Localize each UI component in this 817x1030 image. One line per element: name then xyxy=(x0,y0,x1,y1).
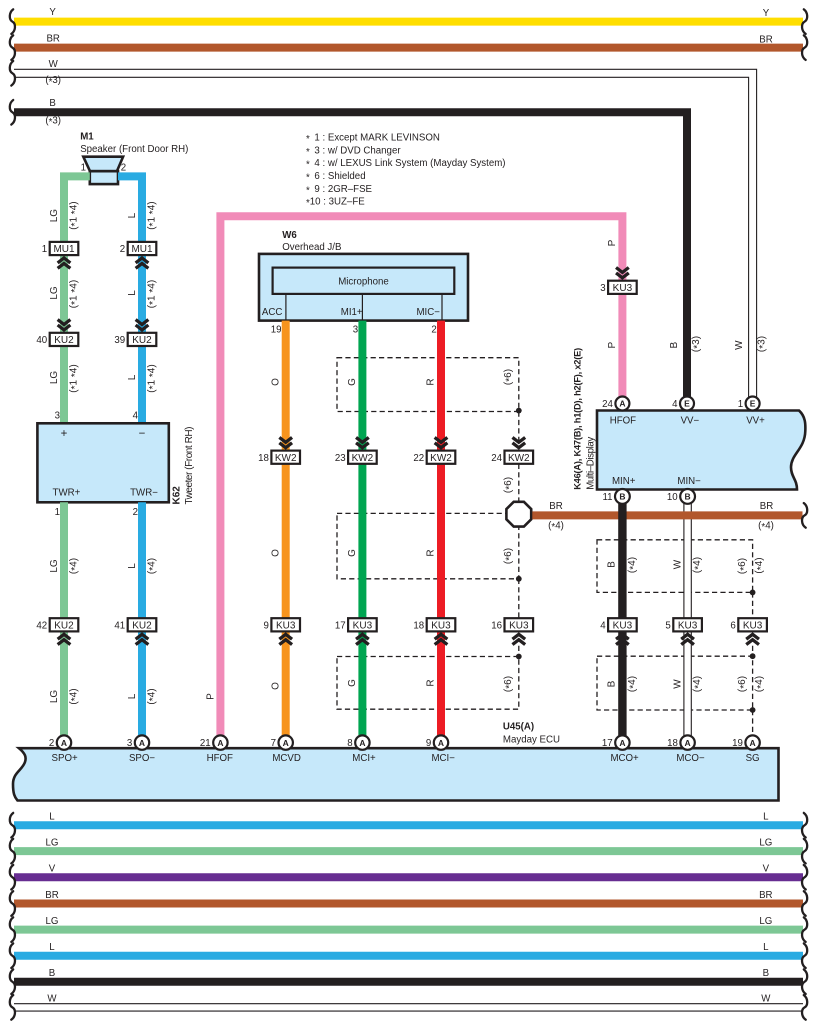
svg-text:BR: BR xyxy=(759,890,772,901)
connector KW2 pin 18 xyxy=(258,437,300,463)
svg-text:Tweeter (Front RH): Tweeter (Front RH) xyxy=(184,427,195,505)
svg-text:2: 2 xyxy=(49,738,54,749)
pin 8 (A) Mayday ECU MCI+ xyxy=(347,735,376,763)
connector KU2 pin 40 xyxy=(36,320,78,346)
svg-text:*​ 4 : w/ LEXUS Link System (: *​ 4 : w/ LEXUS Link System (Mayday Syst… xyxy=(306,158,506,171)
wire G W6 MI1+ to Mayday ECU MCI+ xyxy=(347,321,362,741)
svg-text:KW2: KW2 xyxy=(508,453,530,464)
svg-text:39: 39 xyxy=(114,335,125,346)
pin 2 (A) Mayday ECU SPO+ xyxy=(49,735,78,763)
svg-text:(*​1 *​4): (*​1 *​4) xyxy=(147,201,160,229)
svg-text:Y: Y xyxy=(763,8,770,19)
svg-text:22: 22 xyxy=(413,453,424,464)
svg-text:L: L xyxy=(49,812,55,823)
wire B (top, black, *3) to Multi-Display VV- xyxy=(10,98,704,397)
svg-text:24: 24 xyxy=(491,453,502,464)
svg-text:KU2: KU2 xyxy=(132,335,152,346)
svg-text:KU3: KU3 xyxy=(613,620,633,631)
svg-text:KU2: KU2 xyxy=(54,335,74,346)
svg-text:*​10 : 3UZ–FE: *​10 : 3UZ–FE xyxy=(306,197,365,210)
svg-text:B: B xyxy=(685,492,691,502)
svg-text:A: A xyxy=(139,738,145,748)
svg-text:MCI+: MCI+ xyxy=(352,753,376,764)
wire BR (bottom bus) xyxy=(10,890,807,916)
svg-text:V: V xyxy=(49,864,56,875)
svg-text:TWR−: TWR− xyxy=(130,487,158,498)
Mayday ECU U45(A) box xyxy=(13,722,779,801)
svg-text:ACC: ACC xyxy=(262,307,282,318)
svg-text:3: 3 xyxy=(55,411,60,422)
svg-text:M1: M1 xyxy=(80,131,94,142)
wire LG tweeter TWR+ to Mayday ECU SPO+ xyxy=(49,502,81,741)
svg-text:(*​3): (*​3) xyxy=(691,336,704,352)
svg-text:U45(A): U45(A) xyxy=(503,722,534,733)
svg-text:KU3: KU3 xyxy=(431,620,451,631)
svg-text:G: G xyxy=(347,679,358,687)
svg-text:(*​4): (*​4) xyxy=(692,676,705,692)
svg-text:(*​4): (*​4) xyxy=(754,676,767,692)
pin 21 (A) Mayday ECU HFOF xyxy=(200,735,233,763)
svg-text:G: G xyxy=(347,378,358,386)
shield dashed box R2 (around B,W wires) xyxy=(597,656,767,710)
svg-text:SPO+: SPO+ xyxy=(52,753,78,764)
svg-text:MCI−: MCI− xyxy=(431,753,455,764)
shield dashed box 3 (around G,R wires) xyxy=(337,657,519,710)
svg-text:(*​6): (*​6) xyxy=(503,548,516,564)
svg-text:(*​1 *​4): (*​1 *​4) xyxy=(69,280,82,308)
connector KU3 pin 6 xyxy=(730,618,766,644)
svg-text:10: 10 xyxy=(667,492,678,503)
svg-text:P: P xyxy=(607,342,618,349)
svg-text:KU3: KU3 xyxy=(743,620,763,631)
svg-text:42: 42 xyxy=(36,620,47,631)
connector KU2 pin 42 xyxy=(36,618,78,644)
svg-text:*​ 9 : 2GR–FSE: *​ 9 : 2GR–FSE xyxy=(306,184,373,197)
wire B Multi-Display MIN+ to Mayday ECU MCO+ (black) xyxy=(606,503,639,735)
svg-text:1: 1 xyxy=(55,507,60,518)
svg-text:E: E xyxy=(750,399,756,409)
svg-text:MCO−: MCO− xyxy=(676,753,705,764)
svg-text:9: 9 xyxy=(426,738,431,749)
svg-text:W: W xyxy=(49,59,59,70)
svg-text:(*​6): (*​6) xyxy=(503,369,516,385)
svg-text:Overhead J/B: Overhead J/B xyxy=(282,242,341,253)
svg-text:2: 2 xyxy=(121,162,126,173)
svg-text:KW2: KW2 xyxy=(275,453,297,464)
svg-text:3: 3 xyxy=(127,738,132,749)
svg-text:40: 40 xyxy=(36,335,47,346)
connector KU3 pin 5 xyxy=(665,618,701,644)
svg-text:A: A xyxy=(750,738,756,748)
svg-text:LG: LG xyxy=(49,286,60,300)
svg-text:3: 3 xyxy=(353,325,358,336)
svg-text:1: 1 xyxy=(42,244,47,255)
tweeter K62 (Front RH) box xyxy=(37,411,194,518)
svg-text:L: L xyxy=(127,290,138,296)
wire L speaker pin2 to tweeter (segments with labels) xyxy=(118,176,159,423)
svg-text:2: 2 xyxy=(133,507,138,518)
svg-text:(*​6): (*​6) xyxy=(737,676,750,692)
svg-text:KU2: KU2 xyxy=(54,620,74,631)
svg-text:Multi–Display: Multi–Display xyxy=(585,437,596,490)
svg-text:L: L xyxy=(763,812,769,823)
wire W (top, white, *3) to Multi-Display VV+ xyxy=(10,59,769,397)
svg-text:8: 8 xyxy=(347,738,352,749)
pin 1 (E) Multi-Display VV+ xyxy=(738,397,760,411)
svg-text:MU1: MU1 xyxy=(53,244,75,255)
pin 19 (A) Mayday ECU SG xyxy=(732,735,760,763)
shield dashed box R1 (around B,W wires) xyxy=(597,540,767,593)
svg-text:(*​1 *​4): (*​1 *​4) xyxy=(147,364,160,392)
connector KW2 pin 22 xyxy=(413,437,455,463)
svg-text:B: B xyxy=(669,342,680,349)
svg-text:SPO−: SPO− xyxy=(129,753,155,764)
wire L (bottom bus) xyxy=(10,942,807,968)
svg-text:MCVD: MCVD xyxy=(272,753,301,764)
svg-text:9: 9 xyxy=(264,620,269,631)
svg-text:19: 19 xyxy=(271,325,282,336)
svg-text:41: 41 xyxy=(114,620,125,631)
svg-text:W: W xyxy=(47,994,57,1005)
svg-text:(*​4): (*​4) xyxy=(758,520,774,533)
pin 9 (A) Mayday ECU MCI- xyxy=(426,735,455,763)
svg-text:(*​4): (*​4) xyxy=(69,688,82,704)
wire Y (top, yellow) xyxy=(10,7,807,34)
shield dashed box 2 (around G,R wires, to ground) xyxy=(337,513,519,578)
svg-text:LG: LG xyxy=(759,916,772,927)
svg-text:6: 6 xyxy=(730,620,735,631)
svg-text:2: 2 xyxy=(120,244,125,255)
svg-text:(*​4): (*​4) xyxy=(754,557,767,573)
svg-text:W: W xyxy=(734,340,745,350)
svg-text:18: 18 xyxy=(258,453,269,464)
svg-text:MU1: MU1 xyxy=(131,244,153,255)
svg-text:B: B xyxy=(49,968,55,979)
pin 18 (A) Mayday ECU MCO- xyxy=(667,735,705,763)
svg-text:(*​4): (*​4) xyxy=(627,676,640,692)
svg-text:17: 17 xyxy=(602,738,613,749)
svg-text:MCO+: MCO+ xyxy=(610,753,639,764)
svg-text:19: 19 xyxy=(732,738,743,749)
svg-text:A: A xyxy=(359,738,365,748)
svg-text:KW2: KW2 xyxy=(352,453,374,464)
svg-text:KU2: KU2 xyxy=(132,620,152,631)
svg-text:(*​3): (*​3) xyxy=(45,75,61,88)
svg-text:LG: LG xyxy=(46,837,59,848)
svg-text:(*​3): (*​3) xyxy=(45,116,61,129)
connector KU3 pin 4 xyxy=(600,618,636,644)
svg-text:18: 18 xyxy=(667,738,678,749)
wire L tweeter TWR- to Mayday ECU SPO- xyxy=(127,502,159,741)
connector KU3 pin 17 xyxy=(335,618,377,644)
wire LG (bottom bus) xyxy=(10,916,807,942)
svg-text:R: R xyxy=(426,378,437,385)
svg-text:LG: LG xyxy=(49,559,60,573)
svg-text:L: L xyxy=(127,563,138,569)
pin 4 (E) Multi-Display VV- xyxy=(672,397,694,411)
svg-text:A: A xyxy=(619,738,625,748)
svg-text:HFOF: HFOF xyxy=(207,753,233,764)
svg-text:Speaker (Front Door RH): Speaker (Front Door RH) xyxy=(80,144,188,155)
svg-text:LG: LG xyxy=(49,371,60,385)
pin 11 (B) Multi-Display MIN+ xyxy=(602,489,629,504)
svg-text:A: A xyxy=(61,738,67,748)
svg-text:KW2: KW2 xyxy=(430,453,452,464)
svg-text:11: 11 xyxy=(602,492,612,503)
svg-text:24: 24 xyxy=(602,399,613,410)
svg-text:L: L xyxy=(127,693,138,699)
svg-text:W6: W6 xyxy=(282,230,297,241)
svg-text:(*​4): (*​4) xyxy=(147,688,160,704)
svg-text:18: 18 xyxy=(413,620,424,631)
svg-text:KU3: KU3 xyxy=(276,620,296,631)
svg-text:(*​4): (*​4) xyxy=(69,558,82,574)
shield drain wire (dashed) with junction dots, *6 xyxy=(503,408,522,660)
svg-text:L: L xyxy=(49,942,55,953)
svg-text:VV−: VV− xyxy=(681,415,700,426)
svg-text:(*​6): (*​6) xyxy=(737,558,750,574)
svg-text:(*​4): (*​4) xyxy=(548,520,564,533)
svg-text:O: O xyxy=(270,378,281,386)
svg-text:B: B xyxy=(619,492,625,502)
svg-text:R: R xyxy=(426,679,437,686)
wire W (bottom bus, white) xyxy=(10,994,807,1020)
connector KU2 pin 41 xyxy=(114,618,156,644)
svg-text:2: 2 xyxy=(431,325,436,336)
svg-text:B: B xyxy=(606,680,617,687)
svg-text:(*​6): (*​6) xyxy=(503,477,516,493)
svg-text:R: R xyxy=(426,549,437,556)
svg-text:Microphone: Microphone xyxy=(338,277,389,288)
svg-text:MIC−: MIC− xyxy=(416,307,440,318)
svg-text:P: P xyxy=(607,239,618,246)
svg-text:L: L xyxy=(127,374,138,380)
svg-text:(*​1 *​4): (*​1 *​4) xyxy=(69,364,82,392)
svg-text:P: P xyxy=(206,693,217,700)
connector KU2 pin 39 xyxy=(114,320,156,346)
svg-text:A: A xyxy=(619,399,625,409)
svg-text:5: 5 xyxy=(665,620,670,631)
SG drain wire (dashed) with junction dots xyxy=(750,590,756,736)
svg-text:Y: Y xyxy=(49,7,56,18)
svg-text:BR: BR xyxy=(759,34,772,45)
wire BR shield ground to right (*4) xyxy=(532,501,807,533)
pin 10 (B) Multi-Display MIN- xyxy=(667,489,695,504)
svg-text:HFOF: HFOF xyxy=(610,415,636,426)
svg-text:W: W xyxy=(673,679,684,689)
svg-text:BR: BR xyxy=(46,33,59,44)
svg-text:+: + xyxy=(61,428,68,440)
svg-text:1: 1 xyxy=(738,399,743,410)
svg-text:−: − xyxy=(139,428,146,440)
svg-text:TWR+: TWR+ xyxy=(53,487,81,498)
pin 17 (A) Mayday ECU MCO+ xyxy=(602,735,639,763)
svg-text:(*​4): (*​4) xyxy=(692,557,705,573)
svg-text:A: A xyxy=(685,738,691,748)
svg-text:BR: BR xyxy=(549,501,562,512)
svg-text:G: G xyxy=(347,549,358,557)
connector KU3 pin 16 xyxy=(491,618,533,644)
svg-text:A: A xyxy=(283,738,289,748)
wire LG speaker pin1 to tweeter (segments with labels) xyxy=(49,176,90,423)
svg-text:1: 1 xyxy=(81,162,86,173)
svg-text:*​ 3 : w/ DVD Changer: *​ 3 : w/ DVD Changer xyxy=(306,145,401,158)
svg-text:(*​4): (*​4) xyxy=(627,557,640,573)
svg-text:O: O xyxy=(270,682,281,690)
wire W Multi-Display MIN- to Mayday ECU MCO- (white) xyxy=(673,503,705,735)
svg-text:*​ 6 : Shielded: *​ 6 : Shielded xyxy=(306,171,366,184)
svg-text:L: L xyxy=(127,212,138,218)
svg-text:MIN−: MIN− xyxy=(677,476,701,487)
svg-text:KU3: KU3 xyxy=(509,620,529,631)
svg-text:A: A xyxy=(438,738,444,748)
connector KU3 pin 3 xyxy=(600,268,636,294)
svg-text:(*​3): (*​3) xyxy=(756,336,769,352)
svg-text:K62: K62 xyxy=(172,486,183,505)
pin 3 (A) Mayday ECU SPO- xyxy=(127,735,155,763)
speaker M1 (Front Door RH) xyxy=(80,131,188,184)
connector KU3 pin 9 xyxy=(264,618,300,644)
wire P Mayday ECU HFOF to Multi-Display HFOF xyxy=(206,216,623,741)
svg-text:4: 4 xyxy=(672,399,678,410)
wire BR (top, brown) xyxy=(10,33,807,60)
pin 24 (A) Multi-Display HFOF xyxy=(602,397,629,411)
svg-text:SG: SG xyxy=(746,753,760,764)
svg-text:A: A xyxy=(217,738,223,748)
svg-text:LG: LG xyxy=(46,916,59,927)
svg-text:21: 21 xyxy=(200,738,211,749)
svg-text:B: B xyxy=(49,98,55,109)
svg-text:B: B xyxy=(763,968,769,979)
svg-text:4: 4 xyxy=(600,620,606,631)
svg-text:*​ 1 : Except MARK LEVINSON: *​ 1 : Except MARK LEVINSON xyxy=(306,133,440,146)
wire L (bottom bus) xyxy=(10,812,807,838)
svg-text:(*​1 *​4): (*​1 *​4) xyxy=(69,201,82,229)
shield dashed box 1 (around G,R wires, *6) xyxy=(337,358,519,412)
svg-text:LG: LG xyxy=(49,690,60,704)
svg-text:(*​6): (*​6) xyxy=(503,676,516,692)
svg-text:23: 23 xyxy=(335,453,346,464)
connector MU1 pin 1 xyxy=(42,242,78,268)
connector MU1 pin 2 xyxy=(120,242,156,268)
svg-text:BR: BR xyxy=(45,890,58,901)
svg-text:V: V xyxy=(763,864,770,875)
svg-text:W: W xyxy=(673,559,684,569)
shield ground octagon xyxy=(506,502,531,527)
svg-text:O: O xyxy=(270,549,281,557)
wire R W6 MIC- to Mayday ECU MCI- xyxy=(426,321,441,741)
Multi-Display unit K46(A), K47(B), h1(D), h2(F), x2(E) xyxy=(573,348,806,490)
svg-text:BR: BR xyxy=(760,501,773,512)
connector KW2 pin 23 xyxy=(335,437,377,463)
wire LG (bottom bus) xyxy=(10,837,807,863)
svg-text:4: 4 xyxy=(133,411,139,422)
svg-text:3: 3 xyxy=(600,283,605,294)
svg-text:B: B xyxy=(606,561,617,568)
svg-text:L: L xyxy=(763,942,769,953)
svg-text:KU3: KU3 xyxy=(678,620,698,631)
wire V (bottom bus) xyxy=(10,864,807,890)
svg-text:VV+: VV+ xyxy=(746,415,765,426)
junction box W6 Overhead J/B with Microphone xyxy=(259,230,468,336)
svg-text:16: 16 xyxy=(491,620,502,631)
svg-text:E: E xyxy=(684,399,690,409)
connector KU3 pin 18 xyxy=(413,618,455,644)
svg-text:K46(A), K47(B), h1(D), h2(F),: K46(A), K47(B), h1(D), h2(F), x2(E) xyxy=(573,348,583,490)
wire O W6 ACC to Mayday ECU MCVD xyxy=(270,321,285,741)
wire B (bottom bus) xyxy=(10,968,807,994)
svg-text:MIN+: MIN+ xyxy=(612,476,636,487)
svg-text:MI1+: MI1+ xyxy=(341,307,363,318)
svg-text:LG: LG xyxy=(759,837,772,848)
svg-text:KU3: KU3 xyxy=(613,283,633,294)
svg-text:(*​4): (*​4) xyxy=(147,558,160,574)
svg-text:Mayday ECU: Mayday ECU xyxy=(503,735,560,746)
svg-text:LG: LG xyxy=(49,209,60,223)
connector KW2 pin 24 xyxy=(491,437,533,463)
pin 7 (A) Mayday ECU MCVD xyxy=(271,735,301,763)
notes legend xyxy=(306,133,506,210)
svg-text:W: W xyxy=(761,994,771,1005)
svg-text:KU3: KU3 xyxy=(353,620,373,631)
svg-text:(*​1 *​4): (*​1 *​4) xyxy=(147,280,160,308)
svg-text:7: 7 xyxy=(271,738,276,749)
svg-text:17: 17 xyxy=(335,620,346,631)
